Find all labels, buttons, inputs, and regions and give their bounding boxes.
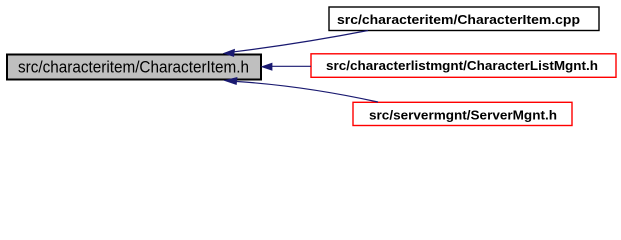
arrowhead: ServerMgnt.h edge: [225, 78, 238, 85]
arrowhead: CharacterItem.cpp edge: [224, 49, 235, 56]
edge: CharacterListMgnt.h -> CharacterItem.h: [272, 65, 311, 67]
node: src/characterlistmgnt/CharacterListMgnt.h (red border): [311, 54, 616, 78]
edge: CharacterItem.cpp -> CharacterItem.h: [234, 31, 368, 52]
svg-text:src/characterlistmgnt/Characte: src/characterlistmgnt/CharacterListMgnt.…: [326, 58, 598, 73]
node: src/characteritem/CharacterItem.cpp: [329, 7, 599, 31]
node: src/servermgnt/ServerMgnt.h (red border): [353, 102, 572, 125]
arrowhead: CharacterListMgnt.h edge: [262, 63, 272, 70]
node: src/characteritem/CharacterItem.h (central, grey fill): [7, 55, 261, 80]
svg-text:src/characteritem/CharacterIte: src/characteritem/CharacterItem.cpp: [337, 12, 580, 27]
svg-text:src/characteritem/CharacterIte: src/characteritem/CharacterItem.h: [18, 58, 249, 77]
svg-text:src/servermgnt/ServerMgnt.h: src/servermgnt/ServerMgnt.h: [369, 108, 557, 123]
edge: ServerMgnt.h -> CharacterItem.h: [237, 82, 378, 103]
